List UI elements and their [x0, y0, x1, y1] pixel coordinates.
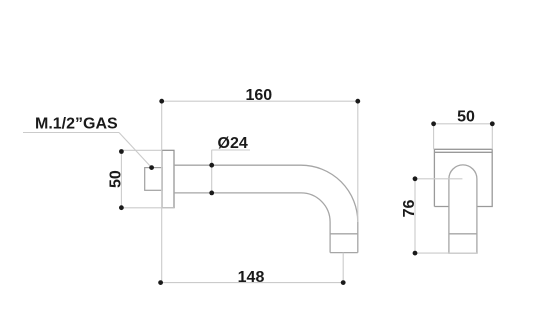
front view spout body [449, 165, 477, 253]
svg-text:148: 148 [238, 269, 265, 286]
svg-text:76: 76 [401, 200, 418, 218]
label M.1/2"GAS with leader [23, 116, 154, 170]
svg-text:50: 50 [457, 109, 475, 126]
wall nipple M1/2 (side view) [145, 168, 162, 191]
svg-text:Ø24: Ø24 [218, 135, 248, 152]
dimension 148 [158, 253, 345, 286]
dimension diameter 24 [209, 135, 250, 195]
svg-text:160: 160 [245, 87, 272, 104]
dimension 160 [159, 87, 360, 282]
wall flange (side view) [162, 150, 174, 207]
dimension 50 (front view) [431, 109, 494, 150]
dimension 50 flange height (side view) [107, 149, 174, 210]
front view flange square [434, 149, 492, 206]
dimension 76 (front view) [401, 176, 477, 255]
svg-text:M.1/2”GAS: M.1/2”GAS [35, 116, 118, 133]
spout tip aerator lines (side view) [330, 234, 358, 253]
svg-text:50: 50 [107, 170, 124, 188]
spout tube horizontal (side view) [174, 165, 358, 252]
